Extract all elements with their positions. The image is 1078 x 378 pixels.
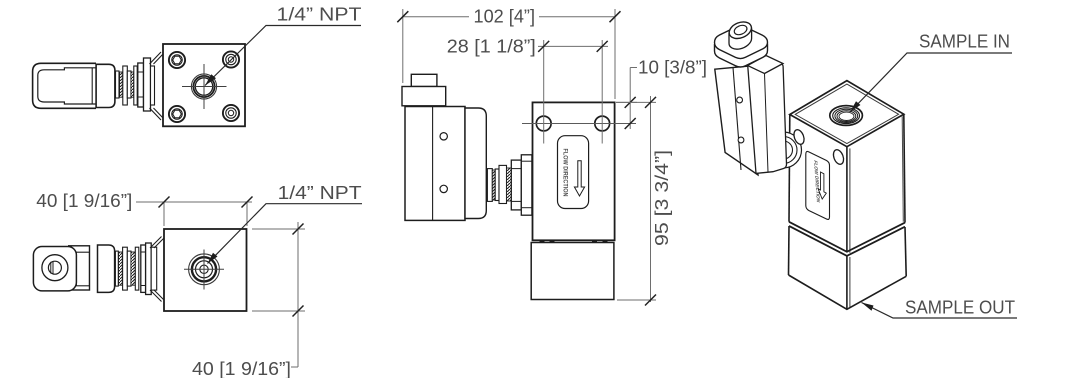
svg-text:SAMPLE IN: SAMPLE IN: [919, 32, 1010, 52]
collar (view3): [521, 155, 532, 215]
washer plate 1 (view2): [115, 251, 118, 286]
svg-text:40 [1 9/16”]: 40 [1 9/16”]: [192, 359, 291, 378]
solenoid armature edge (view1): [91, 68, 93, 104]
iso face hole 2: [832, 148, 846, 165]
iso body top face: [790, 81, 904, 147]
hex corner marks (view1): [150, 52, 162, 64]
hatched washer A (view2): [119, 252, 123, 285]
washer plate 2 (view2): [123, 247, 128, 290]
svg-text:95 [3 3/4”]: 95 [3 3/4”]: [652, 150, 672, 246]
solenoid body block (view2): [98, 245, 115, 292]
solenoid wide block (view3): [402, 87, 446, 106]
arrowhead (SAMPLE OUT): [862, 303, 874, 311]
port circle left (view3): [536, 116, 551, 131]
arrowhead (SAMPLE IN): [850, 101, 861, 112]
hex nut (view2): [141, 245, 146, 292]
slot (view2): [50, 262, 52, 274]
flange plate square (view1): [163, 44, 245, 126]
iso cap skirt: [715, 44, 768, 68]
washer plate 3 (view3): [499, 165, 507, 203]
iso bottom edges: [789, 275, 907, 309]
washer plate 2 (view1): [123, 66, 128, 105]
iso flow plate: [806, 151, 830, 219]
center port circles (view1): [191, 74, 216, 99]
solenoid U-bracket outer (view1): [33, 63, 96, 108]
washer plate 1 (view3): [487, 169, 492, 202]
iso bracket: [748, 64, 787, 174]
hex nut (view3): [511, 160, 521, 210]
valve body upper (view3): [533, 102, 615, 240]
iso upper block edges: [788, 115, 791, 222]
iso lower block edges: [788, 226, 791, 275]
hatched washer B (view2): [131, 252, 135, 285]
iso edge chamfer lines: [849, 148, 851, 252]
hex corner marks (view2): [150, 237, 162, 249]
iso flow arrow: [818, 172, 826, 199]
block square (view2): [164, 229, 247, 311]
hatched washer B (view3): [507, 168, 512, 201]
arrowhead (view1 leader): [205, 74, 216, 85]
washer plate 1 (view1): [116, 71, 120, 98]
port centerlines (view1): [182, 64, 227, 109]
iso coil holes: [737, 97, 743, 103]
coil end rounded square (view2): [33, 247, 76, 291]
seam screw marks (view3): [540, 240, 608, 242]
washer plate 4 (view1): [134, 66, 137, 105]
bolt bottom-right (view1): [223, 105, 239, 121]
seam (view3): [533, 239, 615, 241]
washer plate 2 (view3): [495, 169, 499, 201]
thin piece (view2): [151, 247, 157, 290]
dimension 40 [1 9/16"] top (view2): [136, 202, 252, 226]
iso button cylinder: [727, 19, 754, 49]
solenoid right plate (view3): [465, 108, 486, 219]
iso coil box: [715, 66, 758, 175]
hatched washer B (view1): [131, 72, 134, 97]
collar (view2): [146, 243, 152, 295]
svg-text:FLOW DIRECTION: FLOW DIRECTION: [562, 149, 568, 197]
leader 1/4 NPT (view1): [205, 26, 361, 86]
coil end rect behind (view2): [69, 246, 90, 290]
svg-text:40 [1 9/16”]: 40 [1 9/16”]: [36, 191, 132, 211]
svg-text:1/4” NPT: 1/4” NPT: [277, 5, 362, 25]
iso face hole 1: [792, 128, 806, 145]
collar (view1): [144, 58, 151, 111]
svg-text:28 [1 1/8”]: 28 [1 1/8”]: [447, 37, 536, 57]
dimension 10 [3/8"] (view3): [616, 68, 637, 130]
flow arrow (view3): [574, 161, 584, 196]
hatched washer A (view3): [492, 170, 495, 200]
solenoid main body (view3): [405, 107, 465, 221]
flow plate (view3): [558, 136, 589, 209]
dimension 28 [1 1/8"] (view3): [538, 40, 608, 144]
solenoid U-bracket inner line (view1): [38, 68, 96, 104]
iso bracket top face: [748, 56, 784, 74]
coil end circle (view2): [42, 255, 68, 281]
hatched washer A (view1): [120, 72, 123, 97]
port centerline horizontal (view3): [522, 123, 636, 125]
bolt bottom-left (view1): [169, 106, 185, 122]
leader 1/4 NPT (view2): [208, 204, 363, 264]
valve body lower (view3): [531, 243, 614, 300]
iso cap top rim: [715, 26, 768, 59]
washer plate 3 (view1): [127, 71, 131, 98]
washer plate 3 (view2): [127, 251, 131, 286]
port circle right (view3): [595, 116, 610, 131]
bolt top-left (view1): [169, 52, 185, 68]
leader SAMPLE IN: [850, 53, 1012, 112]
iso top port: [830, 106, 863, 126]
iso top face chamfer: [795, 84, 898, 144]
arrowhead (view2 leader): [208, 253, 218, 264]
dimension 40 [1 9/16"] right (view2): [252, 222, 305, 367]
thin piece (view1): [151, 66, 155, 105]
solenoid top small block (view3): [411, 74, 437, 86]
hex nut (view1): [138, 63, 144, 107]
svg-text:1/4” NPT: 1/4” NPT: [278, 183, 362, 203]
svg-text:102 [4”]: 102 [4”]: [474, 7, 536, 27]
svg-text:10 [3/8”]: 10 [3/8”]: [638, 58, 707, 78]
washer plate 4 (view2): [135, 247, 139, 290]
svg-text:SAMPLE OUT: SAMPLE OUT: [905, 298, 1015, 318]
bolt top-right (view1): [223, 51, 239, 67]
port circles (view2): [189, 254, 220, 285]
solenoid body block (view1): [96, 64, 115, 107]
iso washers: [766, 132, 802, 168]
port centerlines (view2): [184, 250, 224, 290]
coil screws (view3): [440, 133, 447, 140]
dimension 102 [4"] (view3): [403, 9, 615, 99]
leader SAMPLE OUT: [862, 303, 1018, 319]
dimension 95 [3 3/4"] (view3): [616, 96, 656, 302]
iso seam band: [789, 222, 905, 252]
